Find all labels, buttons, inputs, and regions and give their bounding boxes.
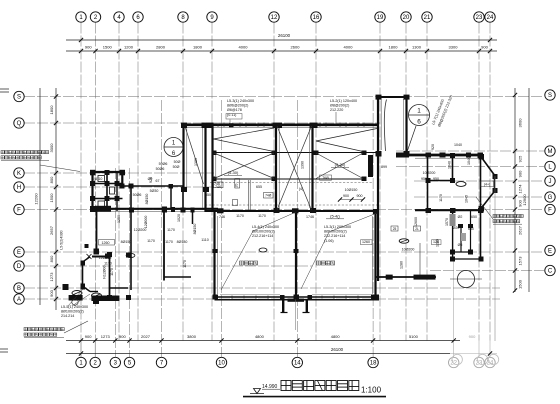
column block C67 bbox=[81, 261, 86, 266]
axis circle 9 top bbox=[207, 12, 217, 22]
svg-text:23: 23 bbox=[476, 15, 483, 21]
detail circle 1/6 left bbox=[164, 138, 183, 158]
wall vertical x=452.5 small room bbox=[452, 210, 454, 259]
column block C45 bbox=[478, 208, 484, 213]
svg-text:4000: 4000 bbox=[344, 45, 354, 50]
boxed label 74-phi bbox=[264, 193, 274, 199]
grid line axis Q (horizontal) bbox=[24, 122, 380, 124]
svg-text:8Ø150: 8Ø150 bbox=[193, 224, 197, 235]
plan dimension text 1170 #44 bbox=[183, 260, 187, 268]
svg-text:1273: 1273 bbox=[101, 334, 111, 339]
plan dimension text &#216;5 #18 bbox=[458, 243, 463, 247]
wall right rooms top y=210.5 bbox=[415, 209, 482, 211]
grid line axis 6 (vertical) bbox=[137, 23, 139, 341]
wall right small rooms floor y=259 bbox=[450, 258, 483, 260]
grid line chamfer x=495 bbox=[494, 176, 496, 341]
svg-text:650: 650 bbox=[205, 193, 211, 197]
axis circle 14 bottom bbox=[292, 357, 302, 367]
svg-text:E: E bbox=[548, 249, 552, 255]
wall vertical x=470.5 small room bbox=[470, 210, 472, 252]
tiny boxed mark 25 left bbox=[391, 226, 398, 231]
plan dimension text (4) #65 bbox=[299, 187, 303, 191]
svg-text:(5-4(): (5-4() bbox=[330, 214, 340, 219]
plan dimension text N12&#216;00 #57 bbox=[103, 265, 107, 278]
column block C6 bbox=[85, 244, 89, 248]
column block C68 bbox=[81, 284, 86, 290]
svg-text:12600: 12600 bbox=[414, 217, 418, 227]
dimension text 26100 top bbox=[278, 33, 291, 38]
dimension tick left axis S bbox=[54, 94, 58, 98]
dimension tick bottom bbox=[219, 338, 223, 342]
column block C83 bbox=[450, 257, 455, 262]
diagonal leader big detail circle bbox=[407, 126, 416, 152]
column block C55 bbox=[90, 206, 96, 212]
dimension text bottom 1273 bbox=[101, 334, 111, 339]
dimension tick top axis 16 bbox=[314, 49, 318, 53]
dimension text top 1800 bbox=[389, 45, 399, 50]
svg-text:3000: 3000 bbox=[49, 143, 54, 153]
svg-text:D: D bbox=[17, 264, 22, 270]
leader line right block note bbox=[476, 197, 493, 219]
wall left block top (K axis) bbox=[93, 171, 124, 173]
plan dimension text 8&#216;150 #41 bbox=[145, 194, 149, 205]
dimension text bottom 4800 bbox=[331, 334, 341, 339]
column block C20 bbox=[404, 95, 410, 100]
column block C78 bbox=[493, 174, 498, 179]
dimension text left 1273 bbox=[49, 272, 54, 282]
column block C27 bbox=[478, 153, 484, 159]
svg-text:20: 20 bbox=[235, 184, 239, 188]
dimension tick top axis 23 bbox=[477, 49, 481, 53]
column block C19 bbox=[376, 95, 382, 100]
column block C52 bbox=[308, 295, 313, 300]
grid line axis 3 (vertical, lower) bbox=[114, 168, 116, 357]
cabinet box left block cell2 bbox=[110, 187, 115, 194]
plan dimension text 12&#216;000 #12 bbox=[144, 216, 148, 229]
svg-text:4800: 4800 bbox=[255, 334, 265, 339]
dimension tick top-right end bbox=[488, 38, 492, 42]
svg-text:8Ø150: 8Ø150 bbox=[121, 240, 132, 244]
wall chamfer lower right corner bbox=[481, 190, 495, 208]
svg-text:8Ø150: 8Ø150 bbox=[145, 194, 149, 205]
svg-text:12Ø000: 12Ø000 bbox=[144, 216, 148, 229]
wall vertical x=312.5 (shaft right) bbox=[309, 125, 312, 212]
wall interior stub x=192.5 bbox=[192, 210, 194, 225]
dimension text right 1500 bbox=[518, 279, 523, 289]
svg-text:Ø20: Ø20 bbox=[453, 226, 460, 230]
dimension tick left axis F bbox=[54, 207, 58, 211]
plan dimension text (B)10 #1 bbox=[94, 177, 103, 181]
ellipse symbol B axis left bbox=[126, 253, 135, 257]
column block C15 bbox=[202, 123, 214, 128]
column block C73 bbox=[126, 295, 131, 300]
leader line living room right bbox=[301, 213, 377, 289]
svg-text:1380: 1380 bbox=[194, 158, 198, 166]
dimension tick top axis 19 bbox=[378, 49, 382, 53]
svg-text:F: F bbox=[548, 208, 552, 214]
plan dimension text 12&#216;200 #55 bbox=[99, 256, 112, 260]
svg-text:900: 900 bbox=[357, 194, 363, 198]
column block C84 bbox=[479, 257, 484, 262]
grid line axis 19 (vertical) bbox=[379, 23, 381, 341]
wall bay left x=82.5 bbox=[82, 262, 84, 286]
plan dimension text 8&#216;180 #46 bbox=[177, 240, 188, 244]
note bottom-left line2 (CJK) bbox=[24, 333, 57, 336]
column block C49 bbox=[386, 275, 393, 280]
column block C50 bbox=[414, 275, 436, 280]
dimension text left 1500 bbox=[49, 193, 54, 203]
svg-text:214.214: 214.214 bbox=[61, 314, 74, 318]
dimension tick right axis J bbox=[513, 179, 517, 183]
column block C76 bbox=[91, 296, 119, 302]
plan dimension text &#216;20 #51 bbox=[453, 226, 460, 230]
plan dimension text 1746 #61 bbox=[306, 215, 314, 219]
dimension text left 2657 bbox=[49, 225, 54, 235]
axis circle 1 bottom bbox=[76, 357, 86, 367]
svg-text:1274: 1274 bbox=[518, 184, 523, 194]
svg-text:1040: 1040 bbox=[467, 157, 471, 165]
wall y=277 east wing bbox=[376, 276, 437, 278]
dimension tick left axis D bbox=[54, 264, 58, 268]
svg-text:S: S bbox=[17, 95, 21, 101]
plan dimension text 50&#216; #43 bbox=[173, 165, 180, 169]
column block C57 bbox=[105, 181, 110, 186]
svg-text:(4): (4) bbox=[299, 187, 303, 191]
svg-text:899: 899 bbox=[381, 165, 387, 169]
dimension text right 2627 bbox=[518, 225, 523, 235]
column block C8 bbox=[169, 184, 174, 189]
ellipse symbol right block bbox=[456, 182, 466, 187]
axis circle 2 bottom bbox=[90, 357, 100, 367]
svg-text:212.220: 212.220 bbox=[330, 108, 343, 112]
plan dimension text 8&#216;150 #35 bbox=[121, 240, 132, 244]
room label living-room-left (CJK) bbox=[240, 261, 258, 265]
dimension text top 1200 bbox=[124, 45, 134, 50]
column block C35 bbox=[368, 155, 373, 177]
svg-text:900: 900 bbox=[481, 45, 488, 50]
column block C17 bbox=[310, 123, 318, 128]
dimension text bottom 5100 bbox=[409, 334, 419, 339]
beam label L5-7(1) rotated bbox=[431, 95, 453, 128]
svg-text:C: C bbox=[548, 269, 553, 275]
plan dimension text 950 #33 bbox=[433, 177, 439, 181]
dimension text top 3300 bbox=[449, 45, 459, 50]
window marks living room bottom bbox=[232, 296, 358, 300]
column block C31 bbox=[272, 177, 277, 182]
svg-text:E: E bbox=[17, 250, 21, 256]
axis circle 23 bottom (faint) bbox=[474, 354, 488, 367]
svg-text:746: 746 bbox=[215, 185, 221, 189]
svg-text:1: 1 bbox=[417, 107, 421, 114]
wall vertical x=378 (axis 16) bbox=[378, 95, 381, 281]
column block C51 bbox=[280, 295, 285, 300]
plan dimension text 128 #50 bbox=[433, 240, 439, 244]
plan dimension text 1260 #53 bbox=[436, 239, 440, 247]
svg-text:76Ø: 76Ø bbox=[322, 176, 329, 180]
dimension tick top axis 4 bbox=[117, 49, 121, 53]
plan dimension text 1280 #49 bbox=[400, 261, 404, 269]
svg-text:650: 650 bbox=[471, 215, 477, 219]
dimension tick right extra bottom bbox=[513, 288, 517, 292]
window marks top wall bbox=[218, 123, 364, 128]
grid line axis 22 (vertical, faint) bbox=[453, 210, 455, 357]
svg-text:L5-4(1) 240x300: L5-4(1) 240x300 bbox=[252, 225, 279, 229]
svg-text:1110: 1110 bbox=[201, 238, 208, 242]
svg-text:10Ø200: 10Ø200 bbox=[402, 248, 415, 252]
svg-text:900: 900 bbox=[518, 170, 523, 177]
rotated label left margin L5-5(2) bbox=[60, 230, 64, 249]
plan dimension text 50&#216;6 #42 bbox=[156, 167, 165, 171]
svg-text:3300: 3300 bbox=[449, 45, 459, 50]
dimension tick left axis A bbox=[54, 297, 58, 301]
ellipse symbol below bay (hatched) bbox=[92, 293, 102, 298]
svg-text:1260: 1260 bbox=[102, 241, 110, 245]
dimension text right 900 bbox=[518, 199, 523, 206]
wall interior x=164 bbox=[163, 210, 165, 281]
dimension text right 1274 bbox=[518, 184, 523, 194]
axis circle 10 bottom bbox=[216, 357, 226, 367]
slope line right panel bbox=[316, 129, 377, 152]
svg-text:1390: 1390 bbox=[301, 161, 305, 169]
svg-text:12Ø200: 12Ø200 bbox=[134, 228, 147, 232]
svg-text:212.216+114: 212.216+114 bbox=[324, 234, 345, 238]
svg-text:1200: 1200 bbox=[124, 45, 134, 50]
axis circle 7 bottom bbox=[156, 357, 166, 367]
column block C21 bbox=[376, 151, 382, 157]
wall living-room right x=375.5 bbox=[372, 212, 375, 298]
svg-text:1170: 1170 bbox=[439, 194, 443, 202]
dimension tick right axis C bbox=[513, 268, 517, 272]
wall left x=171 sub-room bbox=[170, 186, 172, 210]
svg-text:Ø8@200(2): Ø8@200(2) bbox=[330, 104, 349, 108]
grid line axis 5 (vertical, lower) bbox=[129, 168, 131, 357]
dimension text top 1500 bbox=[103, 45, 113, 50]
beam label L5-3(1) living room right bbox=[324, 225, 351, 243]
dimension tick left axis H bbox=[54, 185, 58, 189]
wall living-room bottom bbox=[215, 295, 378, 300]
svg-text:1045: 1045 bbox=[465, 195, 469, 203]
column block C9 bbox=[450, 178, 455, 183]
column block C41 bbox=[292, 208, 299, 213]
plan dimension text 920 #21 bbox=[431, 144, 435, 150]
column block C2 bbox=[162, 207, 167, 213]
dimension tick left axis Q bbox=[54, 121, 58, 125]
svg-text:A: A bbox=[17, 297, 21, 303]
column block C42 bbox=[373, 209, 379, 214]
axis circle 8 top bbox=[178, 12, 188, 22]
column block C46 bbox=[213, 295, 219, 300]
svg-text:1800: 1800 bbox=[193, 45, 203, 50]
svg-text:900: 900 bbox=[119, 334, 126, 339]
wall interior right-block x=452.5 upper bbox=[452, 155, 454, 183]
column block C30 bbox=[272, 151, 277, 156]
axis circle 16 top bbox=[311, 12, 321, 22]
grid line axis H (horizontal) bbox=[24, 186, 214, 188]
plan dimension text 650 #52 bbox=[468, 227, 474, 231]
note top-left margin line2 (CJK) bbox=[1, 156, 41, 159]
grid line axis 16 (vertical) bbox=[315, 23, 317, 341]
svg-text:5100: 5100 bbox=[409, 334, 419, 339]
axis circle 24 bottom (faint) bbox=[485, 354, 499, 367]
wall bay top y=256.5 bbox=[92, 256, 111, 258]
grid line axis 14 (vertical, lower) bbox=[296, 100, 298, 357]
plan dimension text 1170 #59 bbox=[236, 214, 244, 218]
room label living-room-right (CJK) bbox=[317, 261, 335, 265]
dimension tick right axis M bbox=[513, 149, 517, 153]
svg-text:1250: 1250 bbox=[117, 215, 121, 223]
svg-text:4000: 4000 bbox=[239, 45, 249, 50]
wall top of tall stair room bbox=[377, 96, 409, 98]
svg-text:50Ø: 50Ø bbox=[174, 160, 181, 164]
plan dimension text 1170 #39 bbox=[167, 228, 175, 232]
wall dashed band line2 y=205 bbox=[205, 204, 377, 206]
grid line axis 9 (vertical) bbox=[211, 23, 213, 341]
grid line axis G (horizontal) bbox=[414, 196, 544, 198]
plan dimension text 10&#216;200 #48 bbox=[402, 248, 415, 252]
svg-text:S: S bbox=[548, 93, 552, 99]
svg-text:3600: 3600 bbox=[518, 118, 523, 128]
grid line axis 1 (vertical) bbox=[80, 23, 82, 341]
dimension text left 1800 bbox=[49, 105, 54, 115]
dimension tick bottom bbox=[79, 338, 83, 342]
svg-text:10Ø200: 10Ø200 bbox=[423, 171, 436, 175]
grid line axis D (horizontal) bbox=[24, 265, 312, 267]
axis circle 2 top bbox=[90, 12, 100, 22]
svg-text:1040: 1040 bbox=[448, 161, 452, 169]
dimension text top 4000 bbox=[344, 45, 354, 50]
plan dimension text 1040 #22 bbox=[448, 161, 452, 169]
svg-text:L5-3(1) 240x300: L5-3(1) 240x300 bbox=[227, 99, 254, 103]
wall living-room middle x=296 bbox=[295, 212, 297, 298]
column block C54 bbox=[120, 170, 126, 176]
column block C66 bbox=[105, 254, 110, 259]
dimension text bottom 3800 bbox=[187, 334, 197, 339]
svg-text:12200: 12200 bbox=[33, 193, 38, 205]
svg-text:50Ø: 50Ø bbox=[173, 165, 180, 169]
wall interior y=277 bbox=[164, 276, 191, 278]
dimension tick bottom bbox=[371, 338, 375, 342]
column block C1 bbox=[95, 206, 111, 212]
svg-text:950: 950 bbox=[421, 177, 427, 181]
axis circle 24 top bbox=[485, 12, 495, 22]
wall left block interior x=117 bbox=[116, 172, 118, 211]
svg-text:900: 900 bbox=[85, 334, 92, 339]
column block C53 bbox=[90, 170, 96, 176]
grid line axis M (horizontal) bbox=[396, 150, 544, 152]
svg-text:650: 650 bbox=[468, 227, 474, 231]
dimension tick bottom total left bbox=[79, 351, 83, 355]
grid line axis 2 stub to bottom circles bbox=[94, 341, 96, 358]
svg-text:655: 655 bbox=[256, 185, 262, 189]
dimension text right 1573 bbox=[518, 256, 523, 266]
balcony top dark bar bbox=[288, 299, 305, 302]
cabinet box left block cell3 bbox=[98, 201, 105, 208]
plan dimension text 920 #2 bbox=[149, 177, 153, 183]
dimension tick right axis G bbox=[513, 195, 517, 199]
plan dimension text 900 #29 bbox=[343, 194, 349, 198]
svg-text:74Ø: 74Ø bbox=[265, 194, 272, 198]
svg-text:B: B bbox=[17, 286, 21, 292]
dimension tick right axis S bbox=[513, 93, 517, 97]
plan dimension text 50&#216; #8 bbox=[174, 160, 181, 164]
X-brace central shaft bbox=[277, 126, 312, 210]
dimension text right 900 bbox=[518, 170, 523, 177]
dimension tick bottom bbox=[127, 338, 131, 342]
column block C59 bbox=[105, 196, 110, 201]
note right underline bbox=[493, 223, 522, 225]
dimension tick right axis L bbox=[513, 164, 517, 168]
wall right-block top bbox=[396, 155, 482, 158]
beam label L5-2(1) top-right block bbox=[330, 99, 357, 112]
wall interior right-block x=461 bbox=[460, 226, 462, 252]
svg-text:6: 6 bbox=[417, 119, 421, 126]
svg-text:5Ø30: 5Ø30 bbox=[150, 189, 159, 193]
svg-text:20: 20 bbox=[110, 197, 114, 201]
svg-text:50Ø6: 50Ø6 bbox=[133, 193, 142, 197]
grid line axis 23/24 stub bbox=[479, 341, 490, 358]
column block C3 bbox=[171, 207, 175, 212]
axis circle 6 top bbox=[133, 12, 143, 22]
svg-text:(B)10: (B)10 bbox=[94, 177, 103, 181]
stair flight diagonal (narrow room) bbox=[186, 128, 204, 184]
leader line left margin note bbox=[40, 165, 80, 172]
grid line axis 12 (vertical) bbox=[273, 23, 275, 341]
dimension line left segments bbox=[55, 88, 57, 310]
svg-text:1746: 1746 bbox=[306, 215, 314, 219]
column block C12 bbox=[458, 224, 463, 228]
svg-text:L5-2(1) 120x400: L5-2(1) 120x400 bbox=[330, 99, 357, 103]
dimension text right 3600 bbox=[518, 118, 523, 128]
grid line axis 2 (vertical) bbox=[95, 23, 97, 341]
grid line axis 23 (vertical) bbox=[478, 23, 480, 341]
dimension line bottom total (26100) bbox=[66, 353, 497, 355]
plan dimension text 50&#216;6 #4 bbox=[133, 193, 142, 197]
plan dimension text 12&#216;200 #38 bbox=[134, 228, 147, 232]
svg-text:950: 950 bbox=[433, 177, 439, 181]
dimension line right segments bbox=[514, 88, 516, 292]
column block C64 bbox=[181, 208, 186, 213]
axis circle G right bbox=[545, 192, 555, 202]
beam label (5-30) left panel bbox=[224, 170, 242, 175]
grid line axis F (horizontal) bbox=[24, 209, 544, 211]
note right margin line2 (CJK) bbox=[493, 220, 520, 223]
plan dimension text 1250 #40 bbox=[117, 215, 121, 223]
wall left block right x=122.5 bbox=[122, 172, 124, 186]
elevation text 14.990 bbox=[262, 384, 280, 390]
column block C70 bbox=[107, 252, 112, 257]
column block C25 bbox=[440, 153, 446, 158]
axis circle 19 top bbox=[375, 12, 385, 22]
grid line axis 20 (vertical) bbox=[405, 23, 407, 341]
wall corridor bottom y=210 bbox=[92, 209, 218, 212]
axis circle S right bbox=[545, 90, 555, 100]
svg-text:1500: 1500 bbox=[518, 279, 523, 289]
axis circle 18 bottom bbox=[368, 357, 378, 367]
svg-text:8Ø100/200(2): 8Ø100/200(2) bbox=[252, 230, 275, 234]
svg-text:1500: 1500 bbox=[49, 193, 54, 203]
plan dimension text 650 #13 bbox=[205, 193, 211, 197]
grid line axis 4 (vertical) bbox=[118, 23, 120, 341]
beam label (5-30) right panel bbox=[331, 162, 349, 167]
axis circle 3 bottom bbox=[110, 357, 120, 367]
edge mark top-left bbox=[0, 89, 9, 92]
slope line left panel bbox=[214, 128, 275, 152]
balcony side walls bbox=[283, 299, 307, 313]
dimension tick bottom bbox=[452, 338, 456, 342]
beam label (5-40) centre bbox=[326, 214, 344, 219]
dimension tick top axis 8 bbox=[181, 49, 185, 53]
boxed label 746 under band bbox=[214, 182, 224, 188]
